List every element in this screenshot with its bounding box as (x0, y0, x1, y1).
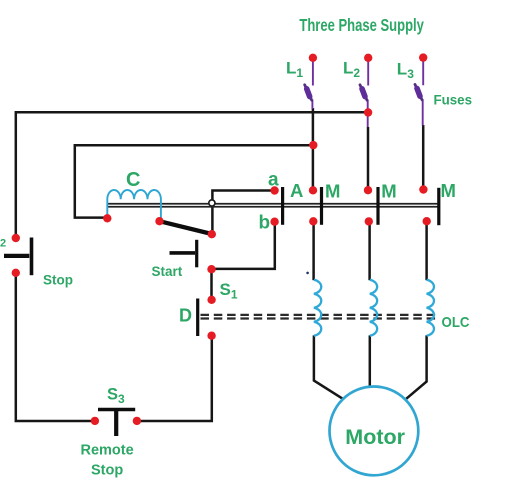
motor M1 circle (330, 387, 419, 476)
wire: L3 purple supply lead (422, 60, 425, 126)
node blade end (208, 230, 216, 238)
coil C winding (107, 190, 161, 221)
wire: node b down, left to start-bottom junction, down to S1/D top (139, 225, 275, 422)
node coil C left terminal (103, 214, 111, 222)
node M1 top (309, 186, 317, 194)
stop button S2 contact bar (30, 238, 34, 276)
node stop top (12, 234, 20, 242)
fuse F3 on L3 (415, 84, 422, 99)
svg-text:Three Phase Supply: Three Phase Supply (299, 15, 424, 35)
svg-text:Start: Start (152, 264, 183, 279)
contact M bar 3 (437, 188, 440, 225)
node M2 bottom (365, 217, 373, 225)
OLC coil 1 (314, 280, 321, 336)
node L1 rail junction (309, 141, 317, 149)
node D bottom (207, 332, 215, 340)
wire: OLC2 to motor (369, 335, 372, 386)
node M3 top (419, 185, 427, 193)
node S3 right (133, 417, 141, 425)
wire: L2 purple supply lead (367, 60, 370, 127)
wire: M2 bottom to OLC2 (368, 223, 371, 280)
wire: L3 column black (422, 125, 425, 188)
wire: node a left and down to blade end (212, 191, 274, 233)
wire: M3 bottom to OLC3 (425, 223, 428, 280)
svg-text:M: M (325, 180, 340, 201)
wire hop over armature bar at x=212 (209, 200, 215, 206)
node start bottom junction (207, 265, 215, 273)
node M2 top (364, 186, 372, 194)
svg-text:C: C (126, 169, 140, 191)
S3 remote stop stem (114, 408, 118, 436)
svg-text:b: b (259, 212, 271, 233)
svg-text:M: M (381, 180, 396, 201)
wire: L1 purple supply lead (311, 60, 314, 109)
overload trip contact D bar (196, 299, 199, 337)
node a (270, 186, 278, 194)
node D top (207, 296, 215, 304)
svg-text:M: M (441, 180, 456, 201)
start button actuator (170, 251, 196, 255)
hinged blade from coil terminal to start contact (160, 221, 212, 234)
S3 remote stop bar (98, 408, 135, 412)
wire: OLC1 to motor (314, 335, 343, 398)
wire: rail1 from L2 node left and down to Stop top (16, 112, 368, 236)
node L2 rail junction (364, 108, 372, 116)
wire: rail2 from L1 node left, down at x=75, right to coil C left terminal (75, 145, 313, 217)
svg-text:Stop: Stop (91, 462, 123, 478)
node L1 top (309, 54, 317, 62)
contact M bar 2 (376, 187, 379, 225)
start button contact bar (195, 240, 198, 267)
wire: M1 bottom to OLC1 (312, 223, 315, 281)
node M3 bottom (423, 217, 431, 225)
svg-text:Stop: Stop (43, 273, 73, 288)
fuse F1 on L1 (305, 85, 312, 100)
wire: L1 column black (312, 108, 315, 189)
node M1 bottom (309, 217, 317, 225)
node L2 top (364, 54, 372, 62)
trip linkage dashed lines (201, 315, 437, 319)
stop button S2 actuator (4, 254, 29, 258)
contactor armature double bar (107, 204, 440, 207)
svg-text:Motor: Motor (345, 425, 405, 449)
svg-text:D: D (179, 305, 192, 325)
svg-text:OLC: OLC (442, 314, 470, 331)
node L3 top (419, 53, 427, 61)
svg-text:A: A (290, 180, 303, 201)
stray ink dot (306, 272, 309, 275)
node stop bottom (12, 269, 20, 277)
svg-text:Fuses: Fuses (434, 92, 473, 108)
svg-text:Remote: Remote (81, 442, 134, 458)
wire: L2 column black (367, 127, 370, 189)
OLC coil 3 (427, 280, 434, 336)
node dots (12, 53, 431, 425)
svg-text:a: a (268, 169, 279, 190)
node S3 left (91, 417, 99, 425)
OLC coil 2 (370, 280, 377, 336)
fuse F2 on L2 (360, 85, 367, 100)
wire: OLC3 to motor (406, 335, 426, 398)
contact M bar 1 (320, 187, 323, 225)
node b (270, 218, 278, 226)
wire: Stop bottom down and right to S3 left (16, 275, 93, 422)
node blade pivot (155, 217, 163, 225)
contact A bar (281, 187, 284, 225)
